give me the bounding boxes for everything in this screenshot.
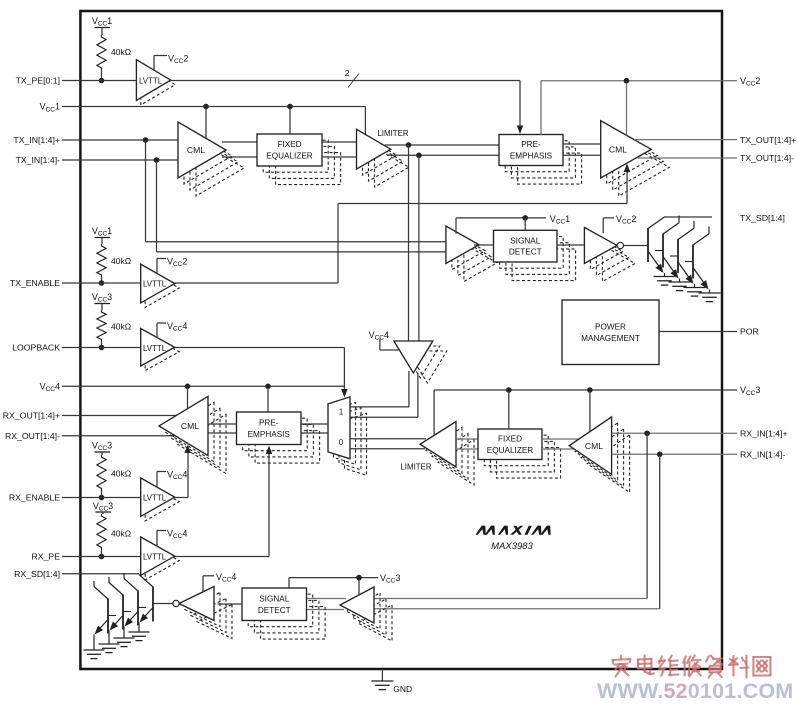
block A2 FIXED EQUALIZER (TX) xyxy=(276,153,341,185)
svg-text:SIGNAL: SIGNAL xyxy=(510,236,540,245)
resistor R1 40k (TX_PE pull-up) xyxy=(97,35,106,70)
wire pre-emphasis to CML U8 - xyxy=(208,432,237,434)
wire RX_ENABLE to CML U8 enable xyxy=(175,497,188,499)
svg-text:SIGNAL: SIGNAL xyxy=(259,594,289,603)
svg-text:EMPHASIS: EMPHASIS xyxy=(248,430,291,439)
wire VCC3 to equalizer top xyxy=(508,390,510,429)
wire pre-emphasis to CML U4 - xyxy=(563,154,601,156)
wire equalizer to limiter - xyxy=(322,156,357,158)
wire pre-emphasis to CML U8 + xyxy=(208,423,237,425)
amplifier U10 CML (RX input) xyxy=(587,435,629,493)
svg-text:CML: CML xyxy=(585,441,603,451)
junction VCC3/CML U10 tap xyxy=(587,387,593,393)
svg-text:TX_SD[1:4]: TX_SD[1:4] xyxy=(740,213,785,223)
junction RX_IN- SD tap xyxy=(657,452,663,458)
IC boundary (chip outline) xyxy=(80,11,722,669)
wire limiter to mux 0 - xyxy=(350,448,425,450)
wire TX_ENABLE to CML U4 enable xyxy=(175,282,338,284)
junction VCC3/U13 tap xyxy=(356,575,362,581)
wire inverter to RX_SD transistors xyxy=(153,603,173,605)
junction limiter-/loopback tap xyxy=(416,153,422,159)
wire pre-emphasis to CML U4 + xyxy=(563,143,601,145)
svg-text:EMPHASIS: EMPHASIS xyxy=(510,152,553,161)
wire POR xyxy=(659,331,722,333)
transistor Q5 (RX_SD open collector) xyxy=(152,587,154,622)
wire loopback tap + down xyxy=(408,145,410,341)
wire TX_IN+ to CML U2 xyxy=(80,139,178,141)
VCC3 tap net (RX SD) xyxy=(288,578,290,588)
wire LOOPBACK to LVTTL U6 xyxy=(80,347,140,349)
junction VCC3/equalizer tap xyxy=(506,387,512,393)
svg-text:40kΩ: 40kΩ xyxy=(111,47,131,57)
arrow into pre-emphasis A1 top xyxy=(517,126,524,135)
svg-text:LVTTL: LVTTL xyxy=(143,494,167,503)
wire VCC4 to CML U8 top xyxy=(187,386,189,409)
svg-text:LVTTL: LVTTL xyxy=(139,77,163,86)
block A3 PRE-EMPHASIS (RX) xyxy=(255,431,320,464)
VCC2 tap on U16 xyxy=(602,218,604,233)
junction LOOPBACK/R3 xyxy=(99,345,105,351)
block A4 FIXED EQUALIZER (RX) xyxy=(497,448,561,479)
svg-text:0: 0 xyxy=(339,438,344,447)
wire SD box to buffer (RX) - xyxy=(307,609,345,611)
resistor R2 40k (TX_ENABLE pull-up) xyxy=(97,244,106,277)
wire VCC4 rail xyxy=(80,385,344,387)
svg-text:DETECT: DETECT xyxy=(258,606,291,615)
wire U2 to equalizer + xyxy=(222,141,257,143)
transistor Q7 (RX_SD open collector) xyxy=(122,595,124,630)
wire loopback buffer out + to mux 1 xyxy=(408,371,410,407)
wire SD box to inverter (TX) xyxy=(557,244,584,246)
svg-text:40kΩ: 40kΩ xyxy=(111,529,131,539)
svg-text:TX_OUT[1:4]-: TX_OUT[1:4]- xyxy=(740,153,794,163)
junction VCC1/SD box tap xyxy=(522,215,528,221)
VCC4 tap on U7 xyxy=(379,339,381,351)
arrow into mux M1 select xyxy=(341,389,348,398)
wire SD box to buffer (RX) + xyxy=(307,598,347,600)
arrow into CML U8 bottom xyxy=(184,445,191,454)
svg-text:MANAGEMENT: MANAGEMENT xyxy=(581,334,640,343)
buffer U7 loopback (down) xyxy=(408,351,447,383)
svg-text:2: 2 xyxy=(345,68,350,78)
svg-text:LVTTL: LVTTL xyxy=(143,344,167,353)
block A5 SIGNAL DETECT (RX) xyxy=(261,607,326,640)
wire U2 to equalizer - xyxy=(222,156,257,158)
wire loopback buffer out - to mux 1 xyxy=(417,373,419,417)
wire TX_SD rail xyxy=(664,216,712,218)
svg-text:40kΩ: 40kΩ xyxy=(111,322,131,332)
block A6 SIGNAL DETECT (TX) xyxy=(512,249,576,281)
amplifier U4 CML (TX output) xyxy=(619,139,670,196)
VCC4 tap on U11 xyxy=(156,472,158,488)
junction TX_IN- signal-detect tap xyxy=(154,157,160,163)
wire RX_SD rail xyxy=(80,573,139,575)
inverter U14 (RX SD output) xyxy=(197,605,232,639)
wire limiter to pre-emphasis - xyxy=(387,154,499,156)
wire VCC1 to CML U2 top xyxy=(205,107,207,139)
wire RX_ENABLE to LVTTL U11 xyxy=(80,497,140,499)
wire RX_IN- to CML U10 xyxy=(612,453,722,455)
junction TX_IN+ signal-detect tap xyxy=(143,137,149,143)
junction limiter+/loopback tap xyxy=(406,142,412,148)
inverter U16 (TX SD output) xyxy=(602,245,635,281)
svg-text:TX_ENABLE: TX_ENABLE xyxy=(10,278,60,288)
wire TX_OUT- to border xyxy=(638,157,722,159)
svg-text:TX_IN[1:4]-: TX_IN[1:4]- xyxy=(16,155,61,165)
wire VCC4 to pre-emphasis A3 top xyxy=(267,386,269,412)
transistor Q8 (RX_SD open collector) xyxy=(107,599,109,634)
buffer U11 LVTTL (RX_ENABLE) xyxy=(145,482,179,521)
junction VCC1/CML tap xyxy=(203,104,209,110)
wire loopback tap - down xyxy=(418,155,420,341)
logo MAXIM xyxy=(475,526,552,535)
wire CML U10 to equalizer - xyxy=(542,448,575,450)
junction RX_PE/R5 xyxy=(99,554,105,560)
buffer U12 LVTTL (RX_PE) xyxy=(145,541,179,580)
wire VCC1 to SD box top xyxy=(524,218,526,230)
wire mux to pre-emphasis + xyxy=(301,423,328,425)
VCC2 tap on U1 xyxy=(153,56,155,71)
svg-text:1: 1 xyxy=(339,408,344,417)
wire VCC2 net xyxy=(540,81,542,135)
svg-text:EQUALIZER: EQUALIZER xyxy=(266,152,312,161)
wire TX_ENABLE to LVTTL U5 xyxy=(80,282,140,284)
svg-text:40kΩ: 40kΩ xyxy=(111,256,131,266)
wire RX_PE to LVTTL U12 xyxy=(80,556,140,558)
wire VCC1 to equalizer top xyxy=(289,107,291,135)
wire TX_PE to LVTTL U1 xyxy=(80,80,136,82)
svg-text:DETECT: DETECT xyxy=(509,248,542,257)
svg-text:TX_IN[1:4]+: TX_IN[1:4]+ xyxy=(13,135,60,145)
wire TX_IN- tap to SD buffer xyxy=(156,160,158,252)
resistor R3 40k (LOOPBACK pull-up) xyxy=(97,310,106,342)
svg-text:CML: CML xyxy=(181,421,199,431)
svg-text:FIXED: FIXED xyxy=(498,434,522,443)
VCC2 tap on U5 xyxy=(156,259,158,274)
svg-text:RX_IN[1:4]-: RX_IN[1:4]- xyxy=(740,450,785,460)
wire TX_IN- to CML U2 xyxy=(80,159,178,161)
junction TX_PE/R1 xyxy=(99,78,105,84)
buffer U6 LVTTL (LOOPBACK) xyxy=(145,333,179,371)
junction VCC4/pre-emphasis tap xyxy=(265,384,271,390)
svg-text:MAX3983: MAX3983 xyxy=(491,541,533,552)
svg-text:PRE-: PRE- xyxy=(259,418,279,427)
svg-text:GND: GND xyxy=(393,684,412,694)
ground GND pin xyxy=(381,669,383,681)
amplifier U8 CML (RX output) xyxy=(177,414,226,473)
wire RX_OUT+ from CML U8 xyxy=(80,415,176,417)
svg-text:40kΩ: 40kΩ xyxy=(111,469,131,479)
svg-text:TX_PE[0:1]: TX_PE[0:1] xyxy=(16,76,60,86)
svg-text:RX_IN[1:4]+: RX_IN[1:4]+ xyxy=(740,429,788,439)
transistor Q2 (TX_SD open collector) xyxy=(662,234,664,268)
svg-text:RX_SD[1:4]: RX_SD[1:4] xyxy=(14,569,60,579)
svg-text:LVTTL: LVTTL xyxy=(143,280,167,289)
svg-text:RX_OUT[1:4]+: RX_OUT[1:4]+ xyxy=(3,411,60,421)
svg-text:CML: CML xyxy=(187,145,205,155)
svg-text:RX_OUT[1:4]-: RX_OUT[1:4]- xyxy=(5,431,60,441)
wire RX_IN- tap to SD buffer xyxy=(659,454,661,609)
bus width slash + label 2 xyxy=(348,74,359,88)
wire limiter to mux 0 + xyxy=(350,438,426,440)
junction RX_IN+ SD tap xyxy=(644,431,650,437)
svg-text:EQUALIZER: EQUALIZER xyxy=(487,446,533,455)
svg-text:WWW.520101.COM: WWW.520101.COM xyxy=(597,679,793,701)
mux M1 (loopback select) xyxy=(345,413,367,475)
amplifier U3 LIMITER (TX) xyxy=(375,147,409,187)
svg-text:LIMITER: LIMITER xyxy=(377,129,408,138)
wire U15 to SD box xyxy=(474,244,494,246)
wire VCC3 rail xyxy=(434,389,722,391)
VCC4 tap on U14 xyxy=(202,576,204,592)
resistor R5 40k (RX_PE pull-up) xyxy=(97,514,106,550)
resistor R4 40k (RX_ENABLE pull-up) xyxy=(97,455,106,491)
VCC4 tap on U12 xyxy=(156,531,158,547)
wire equalizer to limiter (RX) - xyxy=(456,448,478,450)
junction VCC4/CML U8 tap xyxy=(185,384,191,390)
svg-text:RX_ENABLE: RX_ENABLE xyxy=(9,493,60,503)
wire equalizer to limiter + xyxy=(322,141,357,143)
buffer U5 LVTTL (TX_ENABLE) xyxy=(145,269,179,308)
svg-text:POR: POR xyxy=(740,327,759,337)
junction RX_ENABLE/R4 xyxy=(99,495,105,501)
wire SD box to inverter (RX) xyxy=(218,603,243,605)
amplifier U2 CML (TX input) xyxy=(196,140,244,196)
VCC1 tap net (TX SD) xyxy=(455,218,457,234)
svg-text:POWER: POWER xyxy=(595,322,626,331)
svg-text:RX_PE: RX_PE xyxy=(32,552,61,562)
arrow into CML U4 bottom xyxy=(624,164,631,173)
junction VCC2/CML U4 tap xyxy=(624,78,630,84)
wire RX_PE to pre-emphasis A3 xyxy=(175,556,269,558)
transistor Q1 (TX_SD open collector) xyxy=(647,228,649,262)
wire TX_IN+ tap to SD buffer xyxy=(145,140,147,242)
wire RX_IN+ to CML U10 xyxy=(612,432,722,434)
amplifier U9 LIMITER (RX) xyxy=(438,440,474,486)
wire VCC3 to CML U10 top xyxy=(589,390,591,432)
junction TX_ENABLE/R2 xyxy=(99,280,105,286)
buffer U13 (RX signal detect) xyxy=(358,605,392,641)
transistor Q3 (TX_SD open collector) xyxy=(677,239,679,273)
svg-text:LVTTL: LVTTL xyxy=(143,553,167,562)
junction VCC1/equalizer tap xyxy=(287,104,293,110)
block A7 POWER MANAGEMENT xyxy=(562,300,659,365)
wire CML U10 to equalizer + xyxy=(542,438,578,440)
svg-text:LOOPBACK: LOOPBACK xyxy=(12,343,60,353)
svg-text:LIMITER: LIMITER xyxy=(400,463,431,472)
svg-text:CML: CML xyxy=(609,145,627,155)
wire limiter to pre-emphasis + xyxy=(385,144,499,146)
wire TX_OUT+ to border xyxy=(634,139,722,141)
wire inverter to TX_SD transistors xyxy=(624,245,649,247)
transistor Q4 (TX_SD open collector) xyxy=(692,245,694,279)
svg-text:TX_OUT[1:4]+: TX_OUT[1:4]+ xyxy=(740,135,796,145)
transistor Q6 (RX_SD open collector) xyxy=(137,591,139,626)
arrow into pre-emphasis A3 bottom xyxy=(266,446,273,455)
wire VCC1 rail xyxy=(80,106,365,108)
wire LOOPBACK to mux select xyxy=(175,347,345,349)
wire TX_PE bus U1 to pre-emphasis xyxy=(171,80,520,82)
wire equalizer to limiter (RX) + xyxy=(456,438,478,440)
wire RX_IN+ tap to SD buffer xyxy=(646,433,648,598)
wire mux to pre-emphasis - xyxy=(301,432,328,434)
watermark chinese text xyxy=(613,656,631,677)
wire RX_OUT- from CML U8 xyxy=(80,435,175,437)
VCC4 tap on U6 xyxy=(156,323,158,338)
buffer U1 LVTTL (TX_PE) xyxy=(141,64,175,105)
block A1 PRE-EMPHASIS (TX) xyxy=(518,153,582,184)
buffer U15 (TX signal detect) xyxy=(464,244,497,282)
svg-text:FIXED: FIXED xyxy=(277,140,301,149)
svg-text:PRE-: PRE- xyxy=(521,140,541,149)
